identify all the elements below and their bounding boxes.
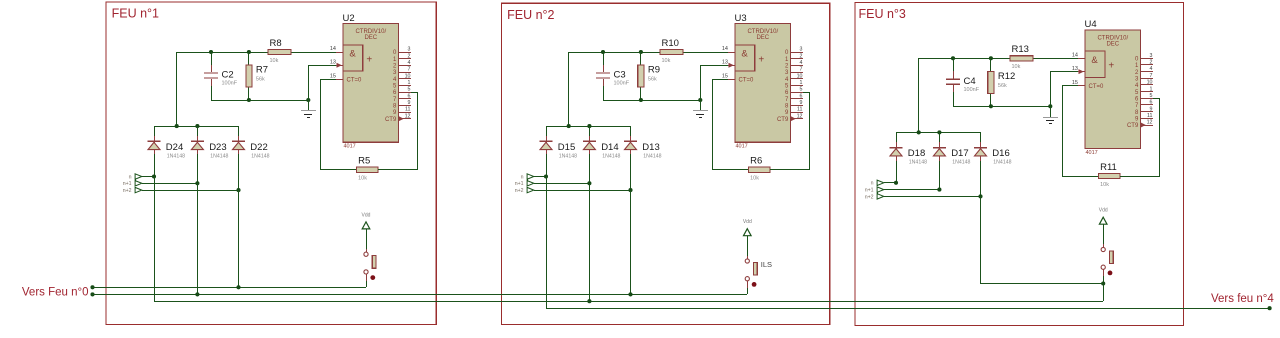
wire xyxy=(417,92,419,170)
svg-text:4017: 4017 xyxy=(736,144,748,150)
svg-text:R12: R12 xyxy=(998,71,1015,82)
subcircuit box FEU n°1 xyxy=(106,2,436,325)
svg-text:R6: R6 xyxy=(750,156,762,167)
wire xyxy=(308,65,310,100)
svg-text:R7: R7 xyxy=(256,65,268,76)
IC U4 4017 counter xyxy=(1085,19,1141,156)
svg-text:+: + xyxy=(758,54,764,65)
wire xyxy=(884,182,896,184)
svg-text:FEU n°3: FEU n°3 xyxy=(859,7,906,21)
resistor R9 xyxy=(638,65,660,87)
pin 11 output 9 xyxy=(1135,113,1153,123)
pin 3 output 0 xyxy=(393,47,411,57)
ground xyxy=(301,100,316,118)
wire xyxy=(238,126,240,136)
wire xyxy=(534,176,546,178)
svg-text:CT9: CT9 xyxy=(1127,123,1139,129)
svg-text:R5: R5 xyxy=(358,156,370,167)
wire xyxy=(378,169,418,171)
junction xyxy=(1101,281,1105,285)
svg-text:12: 12 xyxy=(405,113,411,119)
wire xyxy=(700,65,728,67)
pin 7 output 3 xyxy=(393,67,411,77)
input terminal n+1 xyxy=(865,187,884,194)
svg-text:n+2: n+2 xyxy=(865,194,874,200)
junction xyxy=(195,292,199,296)
input terminal n+2 xyxy=(123,187,142,194)
junction xyxy=(544,174,548,178)
IC U3 4017 counter xyxy=(735,13,791,150)
wire xyxy=(211,100,308,102)
wire xyxy=(1062,85,1078,87)
pin 2 output 1 xyxy=(1135,60,1153,70)
svg-text:U4: U4 xyxy=(1085,19,1097,30)
svg-text:CT=0: CT=0 xyxy=(739,78,755,84)
pin 12 CT9 output xyxy=(1127,120,1153,130)
pin 14 clock input xyxy=(330,46,343,52)
svg-text:10k: 10k xyxy=(358,176,367,182)
wire xyxy=(154,126,238,128)
svg-text:11: 11 xyxy=(797,107,803,113)
wire xyxy=(939,132,941,142)
svg-text:U2: U2 xyxy=(343,13,355,24)
svg-text:1N4148: 1N4148 xyxy=(167,153,185,159)
pin 1 output 5 xyxy=(393,80,411,90)
power Vdd xyxy=(1099,208,1108,225)
svg-text:2: 2 xyxy=(1150,60,1153,66)
wire xyxy=(177,52,268,54)
svg-text:7: 7 xyxy=(800,67,803,73)
svg-text:1N4148: 1N4148 xyxy=(210,153,228,159)
wire xyxy=(197,154,199,183)
wire D14 tail xyxy=(589,183,591,301)
svg-text:15: 15 xyxy=(330,74,336,80)
svg-text:10: 10 xyxy=(405,73,411,79)
capacitor C4 xyxy=(946,58,980,106)
wire xyxy=(747,288,749,294)
svg-text:n+2: n+2 xyxy=(123,188,132,194)
pin 1 output 5 xyxy=(785,80,803,90)
svg-text:15: 15 xyxy=(722,74,728,80)
svg-text:1: 1 xyxy=(408,80,411,86)
svg-text:9: 9 xyxy=(1150,106,1153,112)
svg-text:5: 5 xyxy=(800,87,803,93)
junction xyxy=(587,299,591,303)
svg-text:14: 14 xyxy=(1072,53,1078,59)
wire xyxy=(640,52,642,65)
resistor R8 xyxy=(268,38,291,64)
svg-text:2: 2 xyxy=(408,53,411,59)
svg-text:D23: D23 xyxy=(209,142,226,153)
svg-text:1N4148: 1N4148 xyxy=(251,153,269,159)
wire xyxy=(884,189,939,191)
svg-text:100nF: 100nF xyxy=(614,81,630,87)
wire xyxy=(640,87,642,100)
svg-text:7: 7 xyxy=(1150,73,1153,79)
svg-text:10: 10 xyxy=(1147,80,1153,86)
svg-text:3: 3 xyxy=(408,47,411,53)
junction xyxy=(628,292,632,296)
svg-text:6: 6 xyxy=(800,93,803,99)
wire D13 tail xyxy=(630,190,632,294)
resistor R6 xyxy=(749,156,770,182)
junction xyxy=(175,124,179,128)
svg-text:14: 14 xyxy=(722,46,728,52)
wire xyxy=(939,161,941,190)
junction xyxy=(587,181,591,185)
pin 6 output 7 xyxy=(393,93,411,103)
junction xyxy=(639,50,643,54)
svg-text:100nF: 100nF xyxy=(964,87,980,93)
capacitor C3 xyxy=(596,52,630,100)
svg-text:4: 4 xyxy=(1150,66,1153,72)
pin 6 output 7 xyxy=(785,93,803,103)
pin 15 reset input xyxy=(330,74,343,80)
pin 5 output 6 xyxy=(393,87,411,97)
input terminal n+2 xyxy=(515,187,534,194)
pin 7 output 3 xyxy=(1135,73,1153,83)
node Vers feu n°4 xyxy=(1211,293,1274,310)
svg-text:&: & xyxy=(741,49,748,60)
ground xyxy=(693,100,708,118)
wire xyxy=(568,52,570,126)
junction xyxy=(989,56,993,60)
junction xyxy=(989,104,993,108)
wire xyxy=(770,169,810,171)
wire xyxy=(589,126,591,136)
svg-text:R10: R10 xyxy=(662,38,679,49)
svg-text:3: 3 xyxy=(800,47,803,53)
wire B terminal to feu2 switch xyxy=(92,294,747,296)
resistor R12 xyxy=(988,71,1016,93)
wire xyxy=(411,92,418,94)
svg-text:11: 11 xyxy=(1147,113,1153,119)
svg-text:1: 1 xyxy=(1150,86,1153,92)
svg-text:10k: 10k xyxy=(1100,182,1109,188)
wire xyxy=(603,100,700,102)
wire xyxy=(919,58,1010,60)
svg-text:14: 14 xyxy=(330,46,336,52)
svg-text:D18: D18 xyxy=(908,148,925,159)
pin 6 output 7 xyxy=(1135,100,1153,110)
svg-text:1N4148: 1N4148 xyxy=(909,160,927,166)
wire xyxy=(700,65,702,100)
wire xyxy=(320,79,336,81)
wire xyxy=(712,169,749,171)
resistor R10 xyxy=(660,38,683,64)
wire xyxy=(712,79,728,81)
svg-text:7: 7 xyxy=(408,67,411,73)
junction xyxy=(209,50,213,54)
wire xyxy=(747,236,749,256)
wire xyxy=(712,79,714,170)
svg-text:+: + xyxy=(366,54,372,65)
wire xyxy=(534,190,630,192)
wire xyxy=(142,190,238,192)
wire xyxy=(896,132,898,142)
pin 3 output 0 xyxy=(1135,53,1153,63)
svg-text:10k: 10k xyxy=(750,176,759,182)
wire xyxy=(546,126,630,128)
wire xyxy=(546,126,548,136)
svg-text:9: 9 xyxy=(408,100,411,106)
wire xyxy=(320,169,357,171)
resistor R5 xyxy=(357,156,378,182)
wire xyxy=(630,126,632,136)
svg-text:FEU n°1: FEU n°1 xyxy=(112,7,159,21)
wire xyxy=(176,52,178,126)
wire xyxy=(980,161,982,196)
wire xyxy=(918,58,920,132)
svg-text:CT9: CT9 xyxy=(777,117,789,123)
reed switch ILS xyxy=(745,256,772,288)
svg-text:n+1: n+1 xyxy=(123,181,132,187)
svg-text:10k: 10k xyxy=(270,58,279,64)
pin 2 output 1 xyxy=(785,53,803,63)
pin 5 output 6 xyxy=(1135,93,1153,103)
pin 4 output 2 xyxy=(1135,66,1153,76)
svg-text:4017: 4017 xyxy=(344,144,356,150)
wire xyxy=(1062,176,1099,178)
svg-text:D13: D13 xyxy=(642,142,659,153)
svg-text:1N4148: 1N4148 xyxy=(643,153,661,159)
wire xyxy=(197,126,199,136)
svg-text:10k: 10k xyxy=(1012,64,1021,70)
pin 10 output 4 xyxy=(393,73,411,83)
svg-text:10: 10 xyxy=(797,73,803,79)
svg-text:CT=0: CT=0 xyxy=(347,78,363,84)
svg-text:DEC: DEC xyxy=(756,35,769,41)
pin 13 enable input xyxy=(1072,66,1085,74)
svg-text:C4: C4 xyxy=(964,76,976,87)
svg-text:1N4148: 1N4148 xyxy=(993,160,1011,166)
diode D15 xyxy=(540,136,578,159)
wire xyxy=(1103,276,1105,301)
pin 12 CT9 output xyxy=(385,113,411,123)
svg-text:1: 1 xyxy=(800,80,803,86)
wire D D15 column to Vers feu n4 xyxy=(546,308,1270,310)
junction xyxy=(628,188,632,192)
wire xyxy=(248,87,250,100)
wire xyxy=(953,106,1050,108)
wire xyxy=(1103,224,1105,244)
wire xyxy=(154,126,156,136)
wire xyxy=(896,132,980,134)
wire xyxy=(366,281,368,287)
node Vers Feu n°0 xyxy=(22,285,95,298)
junction xyxy=(236,188,240,192)
wire xyxy=(142,183,197,185)
pin 4 output 2 xyxy=(785,60,803,70)
diode D23 xyxy=(191,136,229,159)
svg-text:D14: D14 xyxy=(601,142,618,153)
svg-text:4017: 4017 xyxy=(1086,150,1098,156)
subcircuit box FEU n°3 xyxy=(855,3,1183,326)
svg-text:n+2: n+2 xyxy=(515,188,524,194)
svg-text:15: 15 xyxy=(1072,80,1078,86)
wire xyxy=(1062,86,1064,176)
svg-text:n: n xyxy=(521,174,524,180)
junction xyxy=(639,98,643,102)
svg-text:U3: U3 xyxy=(735,13,747,24)
svg-text:D15: D15 xyxy=(558,142,575,153)
svg-text:3: 3 xyxy=(1150,53,1153,59)
wire xyxy=(1159,98,1161,176)
svg-text:&: & xyxy=(1091,55,1098,66)
svg-text:n+1: n+1 xyxy=(515,181,524,187)
junction xyxy=(601,50,605,54)
wire xyxy=(803,92,810,94)
svg-text:6: 6 xyxy=(408,93,411,99)
svg-text:CT=0: CT=0 xyxy=(1089,84,1105,90)
svg-text:56k: 56k xyxy=(256,77,265,83)
svg-text:n+1: n+1 xyxy=(865,188,874,194)
wire xyxy=(534,183,589,185)
svg-text:Vers Feu n°0: Vers Feu n°0 xyxy=(22,286,89,298)
pin 13 enable input xyxy=(722,60,735,68)
svg-text:13: 13 xyxy=(1072,66,1078,72)
diode D13 xyxy=(624,136,662,159)
power Vdd xyxy=(362,212,371,229)
diode D17 xyxy=(933,142,971,166)
junction xyxy=(587,124,591,128)
svg-text:CT9: CT9 xyxy=(385,117,397,123)
junction xyxy=(236,285,240,289)
junction xyxy=(195,181,199,185)
diode D24 xyxy=(148,136,186,159)
svg-text:10k: 10k xyxy=(662,58,671,64)
wire xyxy=(683,52,728,54)
svg-text:&: & xyxy=(349,49,356,60)
junction xyxy=(247,98,251,102)
pin 9 output 8 xyxy=(1135,106,1153,116)
wire D24 tail xyxy=(154,176,156,301)
wire D16 tail xyxy=(980,196,982,284)
junction xyxy=(195,124,199,128)
pin 15 reset input xyxy=(1072,80,1085,86)
input terminal n xyxy=(521,174,534,181)
svg-text:13: 13 xyxy=(722,60,728,66)
svg-text:2: 2 xyxy=(800,53,803,59)
pin 12 CT9 output xyxy=(777,113,803,123)
svg-text:+: + xyxy=(1108,61,1114,72)
svg-text:100nF: 100nF xyxy=(222,81,238,87)
pin 15 reset input xyxy=(722,74,735,80)
svg-text:Vdd: Vdd xyxy=(743,219,752,225)
svg-text:Vdd: Vdd xyxy=(362,212,371,218)
svg-text:R9: R9 xyxy=(648,65,660,76)
wire xyxy=(320,79,322,170)
wire xyxy=(366,229,368,249)
svg-text:D17: D17 xyxy=(951,148,968,159)
resistor R11 xyxy=(1099,162,1120,188)
svg-text:11: 11 xyxy=(405,107,411,113)
diode D16 xyxy=(974,142,1012,166)
pin 14 clock input xyxy=(722,46,735,52)
pin 13 enable input xyxy=(330,60,343,68)
pin 7 output 3 xyxy=(785,67,803,77)
pin 4 output 2 xyxy=(393,60,411,70)
wire A feu1 switch to terminal xyxy=(92,287,366,289)
svg-text:Vdd: Vdd xyxy=(1099,208,1108,214)
junction xyxy=(937,130,941,134)
power Vdd xyxy=(743,219,752,236)
svg-text:R13: R13 xyxy=(1012,44,1029,55)
junction xyxy=(152,174,156,178)
junction xyxy=(951,56,955,60)
wire xyxy=(291,52,336,54)
svg-text:D22: D22 xyxy=(250,142,267,153)
reed switch xyxy=(364,249,376,281)
wire xyxy=(980,132,982,142)
wire xyxy=(248,52,250,65)
input terminal n+2 xyxy=(865,193,884,200)
svg-text:4: 4 xyxy=(800,60,803,66)
svg-text:1N4148: 1N4148 xyxy=(602,153,620,159)
junction xyxy=(567,124,571,128)
diode D18 xyxy=(890,142,928,166)
wire xyxy=(1120,176,1160,178)
svg-text:5: 5 xyxy=(1150,93,1153,99)
svg-text:D16: D16 xyxy=(992,148,1009,159)
pin 9 output 8 xyxy=(785,100,803,110)
pin 10 output 4 xyxy=(1135,80,1153,90)
pin 1 output 5 xyxy=(1135,86,1153,96)
wire xyxy=(546,154,548,176)
wire xyxy=(1050,72,1052,106)
svg-text:6: 6 xyxy=(1150,100,1153,106)
wire xyxy=(1033,58,1078,60)
wire xyxy=(980,283,1103,285)
svg-text:D24: D24 xyxy=(166,142,183,153)
wire D15 tail xyxy=(546,176,548,308)
wire xyxy=(896,161,898,183)
junction xyxy=(247,50,251,54)
pin 11 output 9 xyxy=(785,107,803,117)
svg-text:9: 9 xyxy=(800,100,803,106)
svg-text:Vers feu n°4: Vers feu n°4 xyxy=(1211,293,1274,305)
svg-text:n: n xyxy=(871,181,874,187)
pin 2 output 1 xyxy=(393,53,411,63)
junction xyxy=(917,130,921,134)
svg-text:12: 12 xyxy=(1147,120,1153,126)
pin 3 output 0 xyxy=(785,47,803,57)
svg-text:R8: R8 xyxy=(270,38,282,49)
input terminal n+1 xyxy=(515,180,534,187)
wire xyxy=(990,93,992,106)
wire D23 tail xyxy=(197,183,199,294)
pin 10 output 4 xyxy=(785,73,803,83)
input terminal n xyxy=(871,180,884,187)
svg-text:12: 12 xyxy=(797,113,803,119)
junction xyxy=(937,188,941,192)
svg-text:DEC: DEC xyxy=(364,35,377,41)
wire xyxy=(142,176,154,178)
input terminal n+1 xyxy=(123,180,142,187)
pin 11 output 9 xyxy=(393,107,411,117)
junction xyxy=(698,98,702,102)
wire C D24 column to feu3 switch xyxy=(154,301,1103,303)
svg-text:FEU n°2: FEU n°2 xyxy=(507,8,554,22)
svg-text:13: 13 xyxy=(330,60,336,66)
ground xyxy=(1043,106,1058,124)
wire xyxy=(308,65,336,67)
svg-text:R11: R11 xyxy=(1100,162,1117,173)
pin 9 output 8 xyxy=(393,100,411,110)
pin 14 clock input xyxy=(1072,53,1085,59)
svg-text:ILS: ILS xyxy=(761,260,772,269)
resistor R7 xyxy=(246,65,268,87)
